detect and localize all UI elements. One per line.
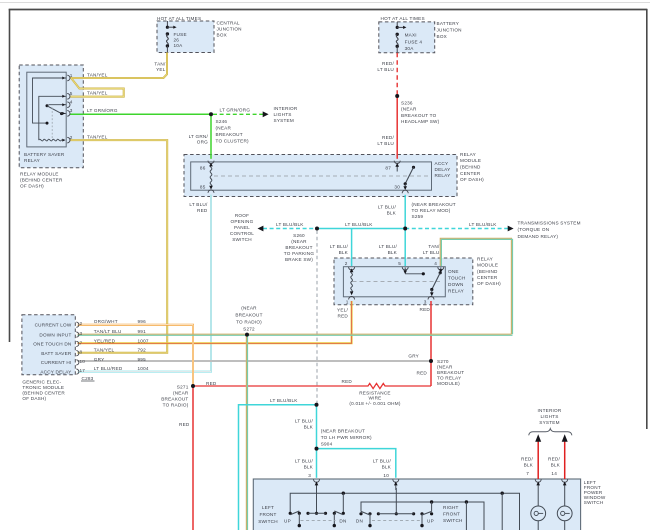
svg-text:RELAY: RELAY (477, 256, 493, 261)
svg-text:TAN/YEL: TAN/YEL (87, 134, 108, 139)
svg-text:(NEAR: (NEAR (291, 239, 307, 244)
svg-text:BREAKOUT: BREAKOUT (161, 396, 188, 401)
svg-text:TAN/: TAN/ (154, 61, 166, 66)
svg-text:S259: S259 (412, 214, 424, 219)
svg-text:BLK: BLK (304, 425, 314, 430)
wire RED/BLK to pin7 (537, 442, 539, 480)
svg-text:LIGHTS: LIGHTS (274, 112, 292, 117)
svg-text:SWITCH: SWITCH (584, 500, 604, 505)
wire LT BLU/BLK down to S904 (316, 405, 318, 449)
svg-text:RED: RED (179, 422, 190, 427)
svg-text:8: 8 (80, 350, 83, 355)
svg-text:FRONT: FRONT (259, 512, 276, 517)
svg-text:LT BLU: LT BLU (377, 141, 394, 146)
svg-text:87: 87 (385, 166, 391, 171)
svg-text:5: 5 (70, 91, 73, 96)
one touch relay pin 1 (349, 297, 355, 300)
svg-text:ROOF: ROOF (235, 213, 249, 218)
svg-text:SWITCH: SWITCH (232, 237, 252, 242)
svg-text:TAN/YEL: TAN/YEL (87, 91, 108, 96)
node S259 (403, 227, 407, 231)
battery saver relay pins 1 5 4 3 2 (67, 75, 70, 81)
svg-text:BREAKOUT TO: BREAKOUT TO (401, 113, 437, 118)
fuse 26 10A (166, 21, 168, 27)
wire TAN/LT BLU S272 branch down (245, 335, 247, 530)
svg-text:MODULE: MODULE (477, 263, 498, 268)
accy relay pin 85 (208, 190, 214, 193)
svg-text:4: 4 (70, 100, 73, 105)
svg-text:4: 4 (434, 261, 437, 266)
svg-text:UP: UP (284, 518, 291, 523)
svg-text:(NEAR: (NEAR (173, 391, 189, 396)
svg-text:RIGHT: RIGHT (443, 505, 459, 510)
arrow up to interior lights (pin7) (535, 434, 541, 442)
svg-text:GRY: GRY (94, 357, 105, 362)
svg-text:UP: UP (427, 518, 434, 523)
wire ORG/WHT GEM pin2 to S271 (78, 325, 194, 385)
svg-text:INTERIOR: INTERIOR (274, 106, 298, 111)
svg-text:MAXI: MAXI (405, 32, 417, 37)
svg-text:26: 26 (174, 37, 180, 42)
wire RED/LT BLU S236 to accy relay pin87 (396, 96, 398, 159)
svg-text:CONTROL: CONTROL (230, 231, 254, 236)
relay module box (one touch down relay) (334, 258, 473, 305)
node S236 (395, 94, 399, 98)
svg-text:(0.018 +/- 0.001 OHM): (0.018 +/- 0.001 OHM) (349, 401, 400, 406)
svg-text:SYSTEM: SYSTEM (274, 118, 294, 123)
svg-text:2: 2 (70, 135, 73, 140)
lamp (pin7) (537, 490, 539, 506)
svg-text:FRONT: FRONT (443, 512, 460, 517)
switch internal bus 1 (290, 493, 519, 530)
svg-text:ONE: ONE (448, 269, 459, 274)
svg-text:LT BLU: LT BLU (377, 67, 394, 72)
svg-text:LT BLU/BLK: LT BLU/BLK (270, 398, 298, 403)
svg-text:INTERIOR: INTERIOR (538, 408, 562, 413)
svg-text:BOX: BOX (437, 34, 447, 39)
svg-text:TOUCH: TOUCH (448, 275, 466, 280)
svg-text:LT BLU/: LT BLU/ (378, 205, 397, 210)
svg-text:LEFT: LEFT (262, 505, 274, 510)
svg-text:C283: C283 (82, 376, 94, 381)
svg-text:30: 30 (394, 184, 400, 189)
svg-text:TO RELAY MOD): TO RELAY MOD) (412, 208, 451, 213)
svg-text:3: 3 (424, 299, 427, 304)
svg-text:ACCY DELAY: ACCY DELAY (40, 369, 71, 374)
svg-text:(BEHIND: (BEHIND (460, 165, 481, 170)
wire LT BLU/BLK S904 to switch pin10 (317, 449, 396, 478)
wire LT GRN/ORG dashed to interior lights (213, 113, 263, 115)
svg-text:LT BLU/: LT BLU/ (295, 419, 314, 424)
svg-text:LT BLU/RED: LT BLU/RED (94, 366, 123, 371)
svg-text:OF DASH): OF DASH) (477, 281, 501, 286)
accy relay pin 30 (402, 190, 408, 193)
svg-text:JUNCTION: JUNCTION (217, 27, 242, 32)
svg-text:DN: DN (339, 518, 346, 523)
svg-text:14: 14 (551, 471, 557, 476)
svg-text:TO RELAY: TO RELAY (437, 375, 461, 380)
wire TAN/YEL pin5 jumper (70, 79, 124, 97)
svg-text:BLK: BLK (388, 250, 398, 255)
switch pin3 wire to contacts (316, 488, 318, 513)
wire RED one touch pin3 to S270 (430, 301, 432, 361)
svg-text:995: 995 (138, 357, 147, 362)
svg-text:85: 85 (200, 184, 206, 189)
svg-text:RELAY: RELAY (460, 152, 476, 157)
svg-text:S271: S271 (177, 385, 189, 390)
svg-text:DOWN: DOWN (448, 282, 464, 287)
svg-text:(NEAR: (NEAR (401, 107, 417, 112)
svg-text:5: 5 (398, 261, 401, 266)
svg-text:1: 1 (346, 299, 349, 304)
svg-text:SWITCH: SWITCH (258, 519, 278, 524)
svg-text:S904: S904 (321, 441, 333, 446)
maxi fuse 4 30A (396, 22, 398, 27)
wire LT BLU/BLK branch to pin2 (351, 229, 353, 267)
svg-text:RED/: RED/ (382, 135, 394, 140)
battery saver relay internal wiring (33, 78, 67, 123)
svg-text:RELAY MODULE: RELAY MODULE (20, 172, 59, 177)
svg-text:10: 10 (383, 473, 389, 478)
wire RED/BLK to pin14 (564, 442, 566, 480)
svg-text:2: 2 (80, 321, 83, 326)
switch pin10 wire to contacts (395, 488, 397, 514)
svg-text:S272: S272 (243, 326, 255, 331)
svg-text:LT GRN/ORG: LT GRN/ORG (220, 108, 251, 113)
svg-text:BLK: BLK (304, 465, 314, 470)
node S904 (315, 447, 319, 451)
svg-text:OF DASH): OF DASH) (20, 184, 44, 189)
arrow to transmissions system (508, 226, 514, 232)
svg-text:TRONIC MODULE: TRONIC MODULE (22, 385, 64, 390)
svg-text:RED: RED (342, 379, 353, 384)
wire RED S271 down (192, 386, 194, 530)
svg-text:1004: 1004 (138, 366, 149, 371)
svg-text:DELAY: DELAY (435, 167, 451, 172)
svg-text:(BEHIND: (BEHIND (477, 269, 498, 274)
svg-text:CURRENT HI: CURRENT HI (41, 360, 72, 365)
svg-text:CURRENT LOW: CURRENT LOW (35, 322, 72, 327)
svg-text:(NEAR BREAKOUT: (NEAR BREAKOUT (412, 202, 456, 207)
svg-text:BOX: BOX (217, 33, 227, 38)
battery saver relay body (27, 72, 66, 147)
svg-text:991: 991 (138, 329, 147, 334)
svg-text:792: 792 (138, 348, 147, 353)
accy delay relay body (191, 162, 432, 190)
svg-text:TO PARKING: TO PARKING (284, 251, 315, 256)
svg-text:BRAKE SW): BRAKE SW) (285, 257, 313, 262)
svg-text:LT BLU/BLK: LT BLU/BLK (276, 222, 304, 227)
svg-text:10A: 10A (174, 43, 184, 48)
svg-text:OF DASH): OF DASH) (22, 396, 46, 401)
svg-text:TRANSMISSIONS SYSTEM: TRANSMISSIONS SYSTEM (518, 220, 581, 225)
svg-text:(BEHIND CENTER: (BEHIND CENTER (22, 391, 65, 396)
svg-text:BLK: BLK (382, 465, 392, 470)
svg-text:RED: RED (420, 307, 431, 312)
svg-text:TO RADIO): TO RADIO) (163, 402, 189, 407)
switch internal bus 2 (361, 502, 484, 530)
svg-text:SYSTEM: SYSTEM (539, 420, 559, 425)
svg-text:BREAKOUT: BREAKOUT (235, 313, 262, 318)
accy relay coil (210, 165, 212, 188)
one touch relay pin 2 (349, 267, 355, 270)
wire LT BLU/RED accy pin85 to GEM pin17 (78, 195, 212, 372)
svg-text:BREAKOUT: BREAKOUT (437, 370, 464, 375)
one touch relay switch blade (440, 268, 442, 271)
arrow to roof opening panel control switch (258, 226, 264, 232)
svg-text:GRY: GRY (408, 353, 419, 358)
svg-text:(NEAR: (NEAR (241, 306, 257, 311)
svg-text:1007: 1007 (138, 338, 149, 343)
wire LT GRN/ORG pin3 to S246 (70, 113, 211, 115)
wire TAN/LT BLU loop to pin4 (440, 238, 511, 334)
svg-text:CENTER: CENTER (460, 171, 481, 176)
one touch relay coil (351, 271, 353, 294)
svg-text:(BEHIND CENTER: (BEHIND CENTER (20, 178, 63, 183)
svg-text:RED: RED (197, 208, 208, 213)
svg-text:LT BLU/: LT BLU/ (373, 459, 392, 464)
wire dashed continuation S260 down (316, 231, 318, 405)
svg-text:TAN/LT BLU: TAN/LT BLU (94, 329, 122, 334)
central junction box (157, 21, 214, 53)
switch pin 3 entry (314, 479, 320, 482)
svg-text:BLK: BLK (524, 463, 534, 468)
svg-text:BLK: BLK (551, 463, 561, 468)
svg-text:1: 1 (70, 73, 73, 78)
svg-text:BATTERY SAVER: BATTERY SAVER (24, 152, 65, 157)
wire RED/LT BLU dashed from maxi fuse (396, 53, 398, 96)
svg-text:(TORQUE ON: (TORQUE ON (518, 227, 550, 232)
svg-text:BLK: BLK (339, 250, 349, 255)
accy relay switch (412, 166, 415, 169)
node S246 (209, 112, 213, 116)
svg-text:LT GRN/ORG: LT GRN/ORG (87, 108, 118, 113)
svg-text:RELAY: RELAY (24, 158, 40, 163)
right switch contact row (359, 512, 362, 515)
svg-text:BLK: BLK (387, 211, 397, 216)
left switch contact row (289, 512, 292, 515)
wire GRY GEM pin10 to S270 (78, 360, 432, 362)
svg-text:TO CLUSTER): TO CLUSTER) (216, 138, 250, 143)
lamp (pin14) (564, 490, 566, 506)
svg-text:DEMAND RELAY): DEMAND RELAY) (518, 234, 559, 239)
relay module box (battery saver relay) (19, 65, 83, 168)
wire LT GRN/ORG S246 down to accy relay pin86 (210, 114, 212, 159)
svg-text:RELAY: RELAY (448, 289, 464, 294)
svg-text:LT BLU/: LT BLU/ (295, 459, 314, 464)
svg-text:ORG/WHT: ORG/WHT (94, 319, 118, 324)
svg-text:RED: RED (417, 371, 428, 376)
svg-text:S260: S260 (293, 233, 305, 238)
svg-text:ACCY: ACCY (435, 161, 449, 166)
svg-text:TAN/YEL: TAN/YEL (94, 348, 115, 353)
svg-text:YEL/: YEL/ (337, 308, 348, 313)
wire LT BLU/BLK S904 to switch pin3 (316, 449, 318, 478)
svg-text:BREAKOUT: BREAKOUT (285, 245, 312, 250)
svg-text:LT BLU/: LT BLU/ (379, 244, 398, 249)
one touch down relay body (343, 267, 445, 297)
svg-text:LT BLU/: LT BLU/ (189, 202, 208, 207)
arrow up to interior lights (pin14) (562, 434, 568, 442)
svg-text:RED/: RED/ (382, 61, 394, 66)
svg-text:MODULE): MODULE) (437, 381, 460, 386)
wire LT BLU/BLK dashed to roof switch (263, 228, 317, 230)
svg-text:BATT SAVER: BATT SAVER (41, 351, 72, 356)
relay module box (accy delay relay) (184, 155, 457, 197)
svg-text:YEL: YEL (156, 67, 166, 72)
svg-text:3: 3 (70, 108, 73, 113)
arrow to interior lights system (263, 111, 269, 117)
svg-text:ORG: ORG (197, 140, 208, 145)
svg-text:86: 86 (200, 166, 206, 171)
generic electronic module box (22, 315, 75, 375)
svg-text:CENTRAL: CENTRAL (217, 21, 240, 26)
wire TAN/YEL pin2 to GEM pin8 (70, 140, 167, 353)
GEM pin labels (76, 322, 79, 327)
wire TAN/YEL pin1 to fuse 26 (70, 53, 167, 79)
svg-text:RED: RED (338, 314, 349, 319)
wire YEL/RED one touch pin1 to GEM pin7 (78, 301, 352, 343)
svg-text:S270: S270 (437, 359, 449, 364)
svg-text:LT BLU/BLK: LT BLU/BLK (469, 222, 497, 227)
node S272 (245, 333, 249, 337)
node S270 (429, 359, 433, 363)
battery saver relay switch blade (47, 106, 62, 114)
svg-text:TO RADIO): TO RADIO) (236, 319, 262, 324)
one touch relay pin 3 (428, 297, 434, 300)
accy relay pin 87 (394, 161, 400, 164)
svg-text:TO LH PWR MIRROR): TO LH PWR MIRROR) (321, 435, 372, 440)
svg-text:DN: DN (356, 518, 363, 523)
svg-text:BREAKOUT: BREAKOUT (216, 132, 243, 137)
svg-text:TAN/YEL: TAN/YEL (87, 73, 108, 78)
svg-text:10: 10 (80, 359, 86, 364)
svg-text:LT BLU: LT BLU (423, 250, 440, 255)
svg-text:30A: 30A (405, 46, 415, 51)
svg-text:(NEAR BREAKOUT: (NEAR BREAKOUT (321, 429, 365, 434)
svg-text:LT GRN/: LT GRN/ (189, 134, 209, 139)
svg-text:3: 3 (308, 473, 311, 478)
wire LT BLU/BLK accy pin30 to S259 (404, 195, 406, 229)
wire LT BLU/BLK S259 to pin5 (404, 229, 406, 267)
svg-text:3: 3 (80, 331, 83, 336)
brace over arrows (529, 429, 572, 436)
svg-text:CENTER: CENTER (477, 275, 498, 280)
svg-text:SWITCH: SWITCH (443, 518, 463, 523)
one touch relay pin 5 (402, 267, 408, 270)
svg-text:BATTERY: BATTERY (437, 21, 460, 26)
svg-text:RED/: RED/ (548, 457, 560, 462)
svg-text:PANEL: PANEL (234, 225, 250, 230)
svg-text:ONE TOUCH DN: ONE TOUCH DN (33, 342, 71, 347)
accy relay pin 86 (208, 161, 214, 164)
svg-text:S236: S236 (401, 100, 413, 105)
switch pin 14 entry (562, 479, 568, 482)
left front power window switch box (253, 479, 580, 530)
svg-text:DOWN INPUT: DOWN INPUT (39, 332, 71, 337)
node S260 (315, 227, 319, 231)
one touch relay pin5 internal contact (404, 268, 406, 272)
svg-text:LIGHTS: LIGHTS (540, 414, 558, 419)
svg-text:17: 17 (80, 368, 86, 373)
wire LT BLU/BLK to lower left (239, 405, 317, 530)
svg-text:RED: RED (206, 381, 217, 386)
svg-text:GENERIC ELEC-: GENERIC ELEC- (22, 379, 61, 384)
svg-text:FUSE: FUSE (174, 32, 187, 37)
svg-text:HOT AT ALL TIMES: HOT AT ALL TIMES (381, 16, 425, 21)
svg-text:MODULE: MODULE (460, 158, 481, 163)
svg-text:HOT AT ALL TIMES: HOT AT ALL TIMES (157, 16, 201, 21)
svg-text:RELAY: RELAY (435, 173, 451, 178)
wire RED resistance wire S270 to S271 (430, 361, 432, 386)
svg-text:OF DASH): OF DASH) (460, 177, 484, 182)
one touch relay pin 4 (438, 267, 444, 270)
switch pin 10 entry (393, 479, 399, 482)
svg-text:2: 2 (345, 261, 348, 266)
node S271 (191, 384, 195, 388)
page border frame (0, 2, 650, 4)
svg-text:S246: S246 (216, 119, 228, 124)
svg-text:FUSE 4: FUSE 4 (405, 39, 423, 44)
svg-text:RED/: RED/ (521, 457, 533, 462)
svg-text:996: 996 (138, 319, 147, 324)
svg-text:HEADLAMP SW): HEADLAMP SW) (401, 119, 440, 124)
svg-text:OPENING: OPENING (231, 219, 254, 224)
svg-text:7: 7 (80, 340, 83, 345)
svg-text:LT BLU/BLK: LT BLU/BLK (345, 222, 373, 227)
battery junction box (379, 22, 435, 53)
wire LT BLU/BLK S260 to S259 (317, 228, 405, 230)
wire LT BLU/BLK dashed to transmissions system (405, 228, 508, 230)
switch pin 7 entry (535, 479, 541, 482)
svg-text:7: 7 (526, 471, 529, 476)
svg-text:TAN/: TAN/ (428, 244, 440, 249)
svg-text:JUNCTION: JUNCTION (437, 27, 462, 32)
node at S260 branch (315, 403, 319, 407)
svg-text:LT BLU/: LT BLU/ (330, 244, 349, 249)
wire TAN/LT BLU GEM pin3 long run (78, 333, 512, 335)
svg-text:(NEAR: (NEAR (437, 364, 453, 369)
svg-text:(NEAR: (NEAR (216, 126, 232, 131)
svg-text:YEL/RED: YEL/RED (94, 338, 116, 343)
